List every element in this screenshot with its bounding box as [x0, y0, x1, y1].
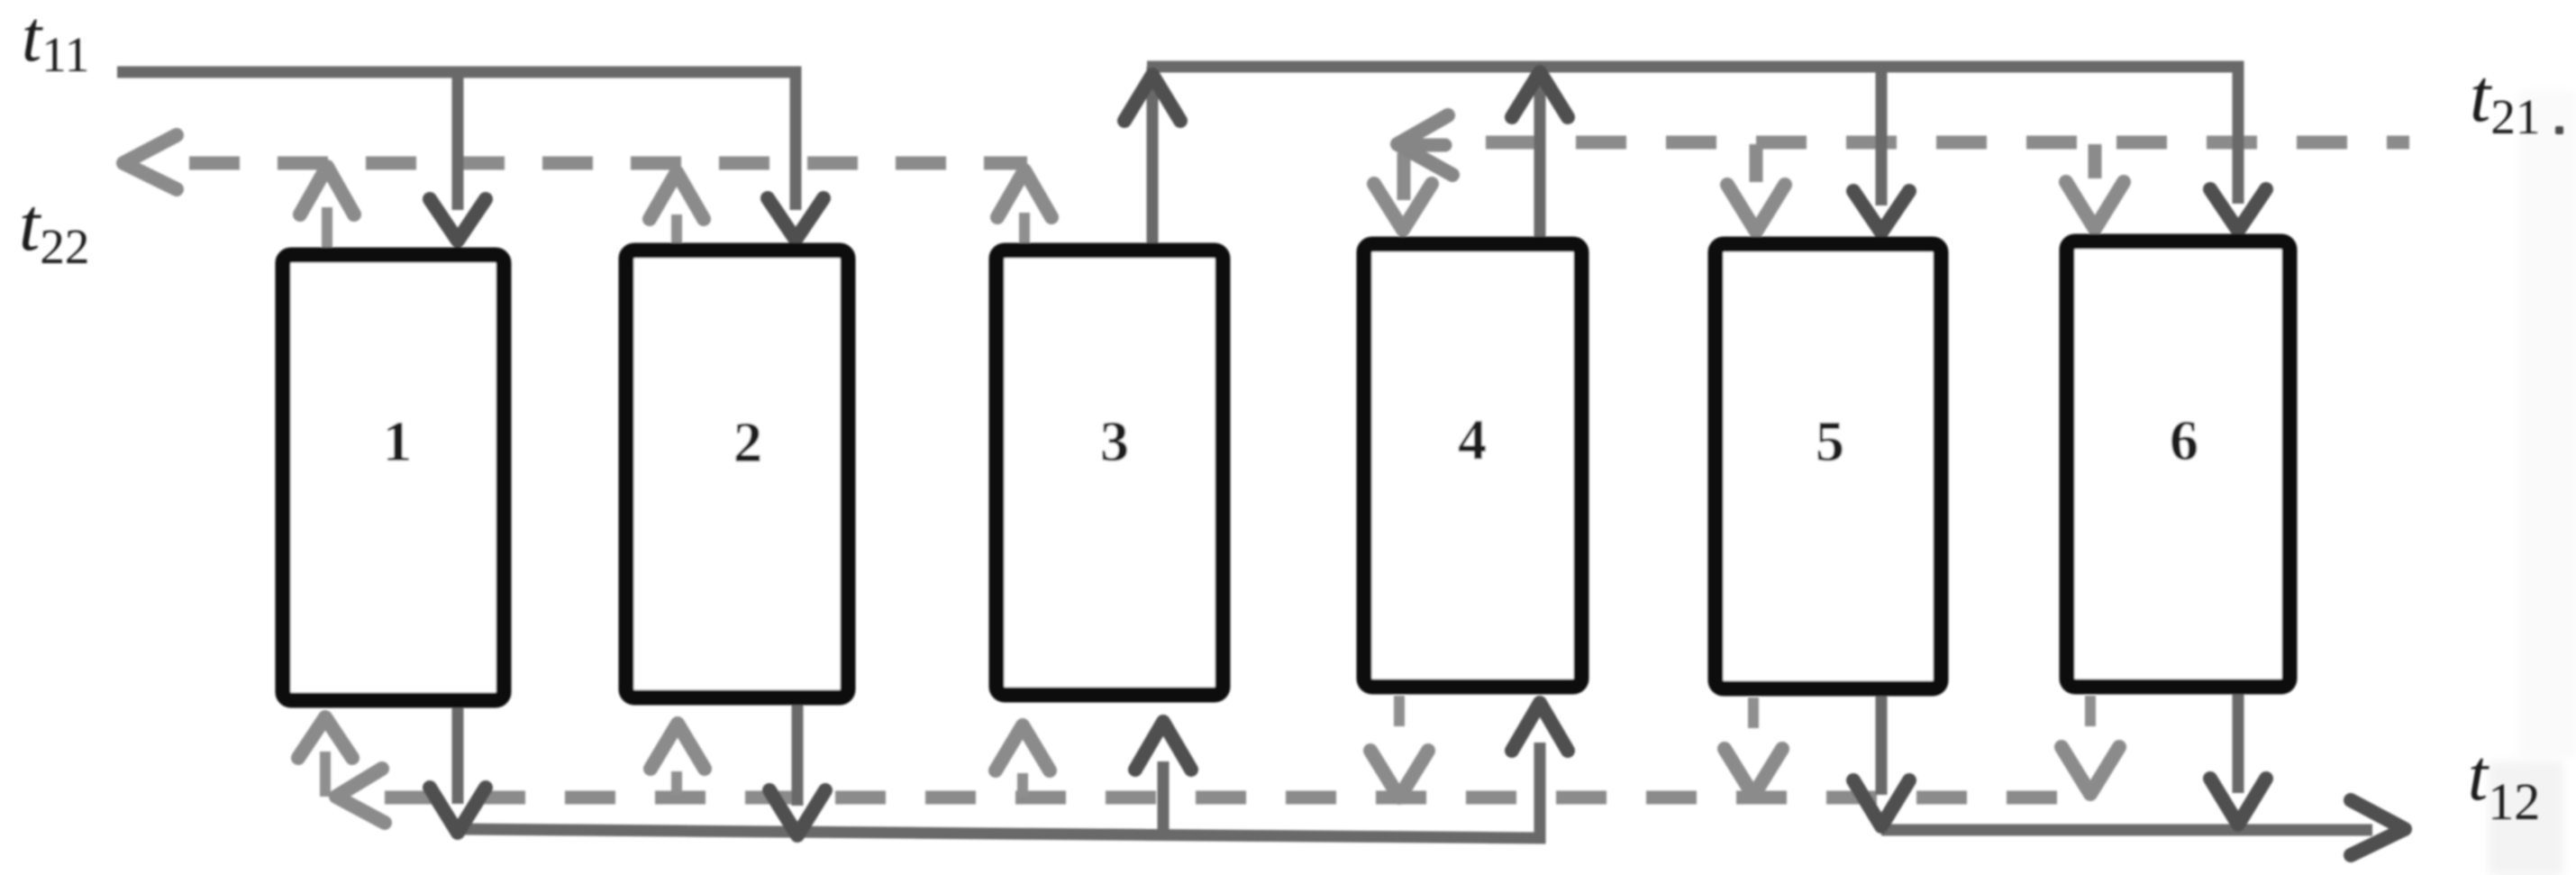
svg-text:5: 5	[1816, 409, 1844, 473]
svg-text:6: 6	[2170, 408, 2198, 472]
svg-text:4: 4	[1458, 407, 1487, 471]
svg-text:3: 3	[1100, 409, 1129, 473]
svg-text:2: 2	[733, 410, 762, 474]
svg-text:1: 1	[383, 409, 412, 473]
